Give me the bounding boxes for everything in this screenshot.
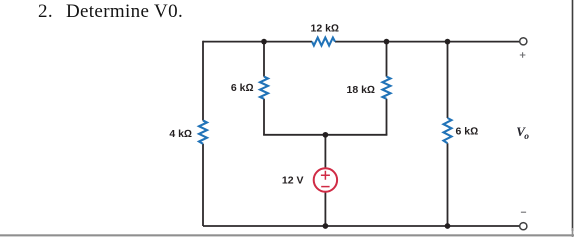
svg-text:4 kΩ: 4 kΩ xyxy=(169,128,192,140)
svg-text:12 kΩ: 12 kΩ xyxy=(311,23,340,35)
svg-text:12 V: 12 V xyxy=(282,175,304,187)
svg-text:18 kΩ: 18 kΩ xyxy=(346,84,375,96)
svg-text:o: o xyxy=(524,132,529,142)
svg-text:6 kΩ: 6 kΩ xyxy=(456,125,479,137)
svg-text:6 kΩ: 6 kΩ xyxy=(231,82,254,94)
